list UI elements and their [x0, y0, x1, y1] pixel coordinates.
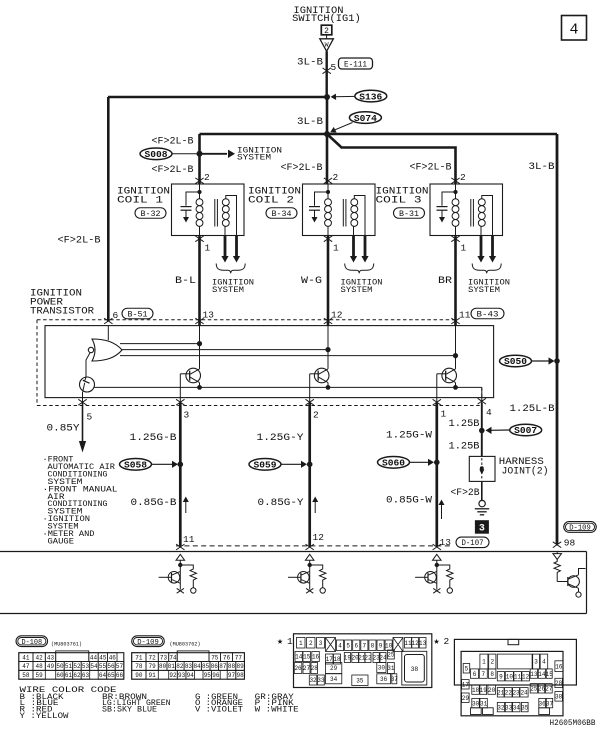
svg-text:B-43: B-43	[477, 310, 499, 319]
svg-text:7: 7	[481, 671, 485, 678]
band transistor T4	[556, 552, 558, 554]
node S060 junction	[434, 460, 440, 466]
pin 13 connector crossing	[433, 544, 441, 550]
svg-text:27: 27	[545, 685, 553, 692]
ignition coil 2 pin 1 crossing	[324, 236, 332, 242]
splice S136	[355, 90, 387, 102]
pin 5 crossing	[78, 399, 86, 405]
svg-text:17: 17	[462, 681, 470, 688]
wire emitter Q3	[327, 383, 329, 388]
band transistor T2 symbol	[298, 572, 310, 584]
svg-text:82: 82	[176, 663, 184, 670]
gate output line 1	[120, 343, 200, 345]
svg-text:★: ★	[434, 637, 440, 648]
svg-text:1: 1	[482, 659, 486, 666]
svg-text:76: 76	[223, 654, 231, 661]
svg-text:(MU803761): (MU803761)	[51, 640, 82, 647]
svg-text:51: 51	[65, 663, 73, 670]
svg-text:S059: S059	[254, 461, 277, 471]
secondary wires coil 2	[354, 196, 365, 236]
connector star2 bottom tabs	[471, 708, 482, 715]
svg-text:52: 52	[73, 663, 81, 670]
brace coil 2	[345, 264, 374, 274]
svg-text:0.85G-W: 0.85G-W	[386, 496, 432, 507]
transistor Q1	[80, 377, 95, 392]
svg-text:34: 34	[330, 676, 338, 683]
wire collector Q3	[327, 326, 329, 369]
band transistor T1	[176, 554, 185, 560]
svg-text:18: 18	[472, 687, 480, 694]
wire horizontal distribution 3L-B	[200, 133, 558, 136]
transistor Q4	[442, 368, 457, 383]
ground reference box 3	[475, 521, 488, 534]
ignition coil 3 pin 2 crossing	[451, 178, 459, 184]
svg-text:15: 15	[546, 671, 554, 678]
svg-text:2: 2	[333, 172, 339, 183]
svg-text:33: 33	[505, 704, 513, 711]
connector star1 pin 38	[402, 651, 427, 685]
svg-text:16: 16	[555, 663, 563, 670]
svg-text:96: 96	[212, 672, 220, 679]
band resistor T4	[554, 559, 560, 581]
connector D-109 right	[564, 522, 597, 533]
svg-text:3L-B: 3L-B	[529, 162, 555, 173]
svg-text:71: 71	[135, 654, 143, 661]
svg-text:<F>2B: <F>2B	[451, 488, 480, 499]
ignition coil 1 pin 1 crossing	[195, 236, 203, 242]
wire emitter bus to pin 4	[481, 387, 483, 403]
connector boundary dashed line D-107	[176, 545, 452, 547]
svg-text:4: 4	[338, 642, 342, 649]
svg-text:31: 31	[480, 700, 488, 707]
brace coil 1	[216, 264, 245, 274]
svg-text:<F>2L-B: <F>2L-B	[281, 163, 323, 174]
svg-text:14: 14	[295, 654, 303, 661]
band transistor T4 symbol	[557, 581, 568, 583]
svg-text:12: 12	[331, 310, 343, 321]
transistor Q3	[314, 368, 329, 383]
svg-text:W :WHITE: W :WHITE	[255, 706, 299, 715]
ignition coil 3 pin 1 crossing	[451, 236, 459, 242]
svg-text:2: 2	[490, 659, 494, 666]
wire collector Q4	[455, 326, 457, 369]
gate input bubble	[88, 347, 93, 352]
svg-text:26: 26	[294, 665, 302, 672]
svg-text:78: 78	[135, 663, 143, 670]
svg-text:S008: S008	[145, 150, 168, 160]
secondary output arrows coil 3	[480, 236, 483, 257]
svg-text:27: 27	[303, 665, 311, 672]
svg-text:D-108: D-108	[22, 639, 43, 647]
band transistor T2	[305, 554, 314, 560]
svg-text:84: 84	[193, 663, 201, 670]
ignition coil 1 box	[172, 184, 245, 236]
band resistor T2	[310, 565, 326, 588]
svg-text:37: 37	[391, 676, 399, 683]
svg-text:79: 79	[149, 663, 157, 670]
wire 0.85Y from pin 5	[82, 403, 84, 441]
connector E-111 pin 5 crossing	[323, 68, 331, 74]
band resistor T1	[180, 565, 196, 588]
svg-text:B-51: B-51	[128, 310, 148, 319]
wire gate to transistor Q1	[86, 353, 90, 378]
svg-text:9: 9	[499, 673, 503, 680]
svg-text:11: 11	[459, 310, 471, 321]
svg-text:33: 33	[317, 677, 325, 684]
svg-text:7: 7	[363, 642, 367, 649]
connector D-107	[456, 537, 489, 548]
svg-text:77: 77	[235, 654, 243, 661]
connector star2 back shell	[454, 639, 576, 685]
pin 12 of power transistor	[324, 318, 332, 324]
ignition coil 2 internal node	[327, 184, 329, 199]
transformer core coil 1	[214, 199, 216, 227]
svg-text:3: 3	[319, 640, 323, 647]
svg-text:59: 59	[36, 672, 44, 679]
svg-text:93: 93	[178, 672, 186, 679]
ignition switch pin box 2	[321, 25, 332, 35]
svg-text:1.25B: 1.25B	[449, 442, 480, 453]
ignition coil 2 box	[303, 184, 376, 236]
ECU band box	[0, 551, 587, 553]
svg-text:62: 62	[73, 672, 81, 679]
svg-text:95: 95	[204, 672, 212, 679]
wire coil 2 output	[327, 236, 330, 326]
svg-text:6: 6	[473, 671, 477, 678]
svg-text:13: 13	[419, 640, 427, 647]
splice S060	[378, 457, 410, 469]
svg-text:48: 48	[36, 663, 44, 670]
svg-text:74: 74	[169, 654, 177, 661]
svg-text:12: 12	[313, 532, 325, 543]
primary winding coil 2	[325, 199, 332, 206]
band transistor T1 symbol	[168, 572, 180, 584]
wire collector Q2	[199, 326, 201, 369]
svg-text:S074: S074	[354, 114, 378, 124]
svg-text:23: 23	[512, 689, 520, 696]
secondary winding coil 3	[478, 199, 485, 206]
svg-text:50: 50	[56, 663, 64, 670]
pin 11 of power transistor	[451, 318, 459, 324]
splice S007	[510, 424, 542, 436]
svg-text:2: 2	[309, 640, 313, 647]
svg-text:2: 2	[324, 27, 329, 36]
connector B-32	[135, 208, 166, 219]
svg-text:5: 5	[87, 412, 93, 423]
svg-text:31: 31	[387, 665, 395, 672]
svg-text:32: 32	[497, 704, 505, 711]
ignition coil 1 internal node	[199, 184, 201, 199]
wire 3L-B right vertical	[556, 134, 559, 544]
current arrow pin12 wire	[314, 500, 316, 513]
ignition coil 2 pin 2 crossing	[324, 178, 332, 184]
svg-text:36: 36	[380, 676, 388, 683]
svg-text:75: 75	[211, 654, 219, 661]
svg-text:3: 3	[534, 659, 538, 666]
wire 1.25G-B / 0.85G-B pin 3 to pin 11	[179, 403, 182, 547]
svg-text:BR: BR	[438, 276, 452, 287]
svg-text:<F>2L-B: <F>2L-B	[58, 236, 101, 247]
svg-text:2: 2	[313, 410, 319, 421]
svg-text:37: 37	[546, 700, 554, 707]
svg-text:35: 35	[356, 677, 364, 684]
svg-text:94: 94	[187, 672, 195, 679]
splice S074	[349, 112, 381, 124]
svg-text:34: 34	[513, 704, 521, 711]
svg-text:0.85Y: 0.85Y	[47, 424, 80, 435]
svg-text:1: 1	[287, 636, 293, 647]
svg-text:44: 44	[90, 654, 98, 661]
pin 4 crossing	[478, 398, 486, 404]
svg-text:55: 55	[99, 663, 107, 670]
svg-text:2: 2	[444, 636, 450, 647]
svg-text:29: 29	[330, 665, 338, 672]
brace coil 3	[472, 264, 501, 274]
svg-text:58: 58	[22, 672, 30, 679]
svg-text:8: 8	[490, 671, 494, 678]
wire to ground	[481, 481, 483, 500]
svg-text:28: 28	[555, 680, 563, 687]
pin 3 crossing	[176, 399, 184, 405]
splice S059	[249, 459, 281, 471]
transformer core coil 2	[342, 199, 344, 227]
svg-text:E-111: E-111	[344, 60, 367, 69]
svg-text:1.25G-Y: 1.25G-Y	[257, 433, 304, 444]
wire ignition switch to splice S136	[326, 35, 328, 39]
pin 1 crossing	[433, 399, 441, 405]
wire branch to ignition coil 3	[327, 134, 456, 184]
svg-text:S060: S060	[382, 459, 405, 469]
svg-text:S058: S058	[124, 461, 147, 471]
svg-text:85: 85	[202, 663, 210, 670]
wire 1.25G-Y / 0.85G-Y pin 2 to pin 12	[308, 403, 311, 547]
svg-text:12: 12	[522, 673, 530, 680]
secondary wires coil 3	[482, 196, 493, 236]
secondary winding coil 2	[351, 199, 358, 206]
connector E-111	[339, 58, 373, 69]
svg-text:63: 63	[82, 672, 90, 679]
wire 2L-B feed left horizontal	[108, 96, 327, 99]
svg-text:<F>2L-B: <F>2L-B	[152, 165, 194, 176]
secondary wires coil 1	[226, 196, 237, 236]
node S059 junction	[307, 462, 313, 468]
wire emitter Q4	[455, 383, 457, 388]
svg-text:61: 61	[65, 672, 73, 679]
pin 12 connector crossing	[306, 544, 314, 550]
driver gate U1	[107, 326, 109, 341]
svg-text:81: 81	[168, 663, 176, 670]
gate output line 3	[120, 355, 456, 357]
svg-text:25: 25	[530, 685, 538, 692]
svg-text:98: 98	[564, 538, 576, 549]
connector B-43	[471, 308, 504, 319]
band resistor T3	[437, 565, 453, 588]
svg-text:3L-B: 3L-B	[297, 117, 323, 128]
wire base Q3 to pin 2	[310, 373, 319, 375]
ignition coil 3 internal node	[455, 184, 457, 199]
svg-text:B-31: B-31	[399, 210, 419, 219]
svg-text:0.85G-B: 0.85G-B	[131, 498, 177, 509]
wire 1.25B pin 4 to ground	[481, 403, 483, 456]
svg-text:5: 5	[331, 62, 337, 73]
svg-text:25: 25	[387, 652, 395, 659]
svg-text:46: 46	[109, 654, 117, 661]
svg-text:JOINT(2): JOINT(2)	[502, 466, 549, 478]
node S008 junction	[197, 151, 203, 157]
svg-text:24: 24	[379, 655, 387, 662]
svg-text:SYSTEM: SYSTEM	[212, 287, 244, 295]
svg-text:Y :YELLOW: Y :YELLOW	[20, 712, 69, 721]
wire main trunk to ignition coil 2	[326, 97, 329, 184]
svg-text:15: 15	[303, 654, 311, 661]
current arrow pin11 wire	[185, 500, 187, 513]
svg-text:12: 12	[412, 640, 420, 647]
svg-text:60: 60	[56, 672, 64, 679]
band transistor T3	[433, 554, 442, 560]
svg-text:24: 24	[520, 689, 528, 696]
svg-text:88: 88	[228, 663, 236, 670]
ground	[479, 500, 485, 506]
svg-text:80: 80	[159, 663, 167, 670]
secondary output arrows coil 2	[352, 236, 355, 257]
svg-text:43: 43	[47, 654, 55, 661]
svg-text:TRANSISTOR: TRANSISTOR	[30, 306, 95, 318]
svg-text:21: 21	[497, 689, 505, 696]
svg-text:20: 20	[488, 687, 496, 694]
svg-text:98: 98	[236, 672, 244, 679]
svg-text:91: 91	[149, 672, 157, 679]
connector D-109 pin table	[132, 653, 245, 680]
connector star1 body	[294, 634, 432, 688]
svg-text:V :VIOLET: V :VIOLET	[195, 706, 243, 715]
svg-text:SB:SKY BLUE: SB:SKY BLUE	[102, 706, 157, 715]
svg-text:89: 89	[236, 663, 244, 670]
svg-text:S050: S050	[504, 357, 527, 367]
node S058 junction	[178, 462, 184, 468]
svg-text:83: 83	[185, 663, 193, 670]
svg-text:29: 29	[462, 695, 470, 702]
wire 2L-B left vertical to transistor pin 6	[107, 97, 110, 322]
svg-text:D-109: D-109	[137, 639, 159, 647]
svg-text:66: 66	[116, 672, 124, 679]
svg-text:9: 9	[379, 642, 383, 649]
arrow to ignition system from S008	[202, 153, 227, 155]
svg-text:57: 57	[116, 663, 124, 670]
svg-text:5: 5	[465, 665, 469, 672]
svg-text:41: 41	[22, 654, 30, 661]
svg-text:4: 4	[569, 22, 578, 39]
connector B-34	[266, 208, 297, 219]
connector B-31	[394, 208, 425, 219]
svg-text:<F>2L-B: <F>2L-B	[410, 163, 452, 174]
svg-text:86: 86	[211, 663, 219, 670]
svg-text:65: 65	[107, 672, 115, 679]
svg-text:6: 6	[113, 310, 119, 321]
capacitor in coil 1	[186, 192, 200, 206]
svg-text:COIL 1: COIL 1	[117, 195, 163, 207]
connector star2 front shell	[461, 651, 563, 715]
svg-text:35: 35	[521, 704, 529, 711]
svg-text:1.25B: 1.25B	[449, 419, 480, 430]
pin 13 of power transistor	[195, 318, 203, 324]
svg-text:2: 2	[460, 172, 466, 183]
node S007 junction	[479, 428, 485, 434]
svg-text:D-107: D-107	[462, 539, 484, 548]
svg-text:11: 11	[514, 673, 522, 680]
splice S050	[500, 355, 532, 367]
svg-text:SYSTEM: SYSTEM	[468, 287, 500, 295]
primary winding coil 3	[452, 199, 459, 206]
svg-text:49: 49	[47, 663, 55, 670]
svg-text:92: 92	[169, 672, 177, 679]
transformer core coil 3	[470, 199, 472, 227]
svg-text:47: 47	[22, 663, 30, 670]
right wire connector crossing 98	[553, 542, 561, 548]
svg-text:19: 19	[344, 655, 352, 662]
svg-text:90: 90	[135, 672, 143, 679]
capacitor in coil 2	[315, 192, 329, 206]
svg-text:W: W	[325, 41, 329, 48]
svg-text:54: 54	[90, 663, 98, 670]
band transistor T3 symbol	[425, 572, 437, 584]
connector star2 pins	[480, 654, 488, 669]
svg-text:73: 73	[160, 654, 168, 661]
connector D-109 bottom	[132, 636, 165, 647]
svg-text:2: 2	[204, 172, 210, 183]
svg-text:5: 5	[346, 642, 350, 649]
pin 6 of power transistor	[104, 318, 112, 324]
svg-text:19: 19	[480, 687, 488, 694]
secondary output arrows coil 1	[224, 236, 227, 257]
wire coil 1 output	[198, 236, 201, 326]
wire base Q4 to pin 1	[437, 373, 446, 375]
svg-text:1: 1	[299, 640, 303, 647]
svg-text:SWITCH(IG1): SWITCH(IG1)	[292, 13, 361, 25]
svg-text:32: 32	[309, 677, 317, 684]
svg-text:COIL 2: COIL 2	[248, 195, 294, 207]
svg-text:10: 10	[506, 673, 514, 680]
svg-text:38: 38	[411, 666, 419, 673]
gate output line 2	[122, 349, 329, 351]
svg-text:42: 42	[36, 654, 44, 661]
svg-text:1.25G-B: 1.25G-B	[130, 433, 177, 444]
ignition coil 1 pin 2 crossing	[195, 178, 203, 184]
wire Q1 emitter to pin 5	[82, 392, 84, 403]
svg-text:56: 56	[107, 663, 115, 670]
svg-text:1.25L-B: 1.25L-B	[510, 404, 555, 415]
svg-text:SYSTEM: SYSTEM	[237, 154, 271, 162]
svg-text:87: 87	[219, 663, 227, 670]
node S074 junction	[324, 131, 330, 137]
splice S008	[140, 148, 172, 160]
svg-text:11: 11	[183, 534, 195, 545]
svg-text:22: 22	[505, 689, 513, 696]
svg-text:S136: S136	[359, 92, 382, 102]
svg-text:B-34: B-34	[272, 210, 292, 219]
svg-text:13: 13	[530, 671, 538, 678]
power transistor outer dashed box	[37, 319, 455, 321]
svg-text:30: 30	[378, 665, 386, 672]
svg-text:22: 22	[364, 655, 372, 662]
svg-text:28: 28	[311, 665, 319, 672]
connector D-108	[16, 636, 48, 647]
pin 2 crossing	[306, 399, 314, 405]
svg-text:53: 53	[82, 663, 90, 670]
harness joint box	[469, 456, 495, 481]
wire emitter Q2	[199, 383, 201, 388]
svg-text:B-L: B-L	[175, 276, 196, 287]
svg-text:0.85G-Y: 0.85G-Y	[258, 498, 304, 509]
